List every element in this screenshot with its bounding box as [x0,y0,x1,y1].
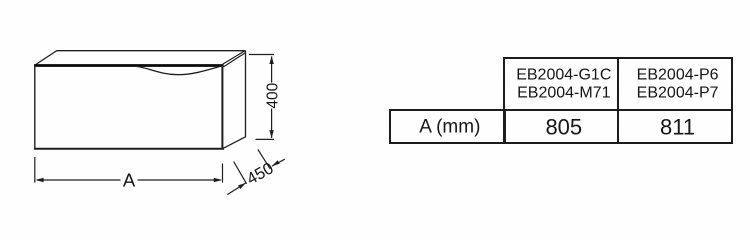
svg-text:A: A [123,169,136,190]
svg-text:450: 450 [244,159,277,188]
svg-text:400: 400 [264,82,281,108]
